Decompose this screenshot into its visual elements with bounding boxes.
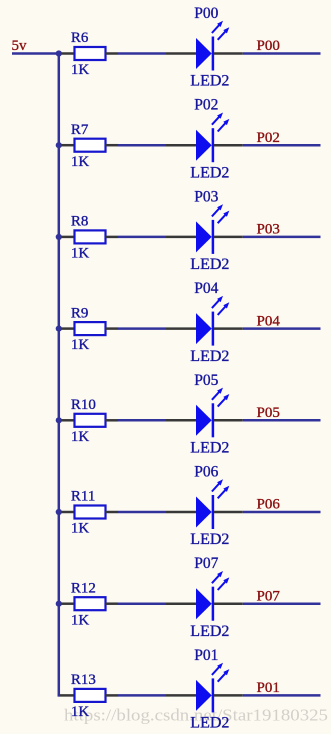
wire: LED to net label P00 [243, 52, 321, 55]
svg-text:LED2: LED2 [190, 348, 229, 365]
junction node row 6 [56, 509, 62, 515]
net label P02 [257, 130, 280, 146]
resistor R11 value 1K [71, 521, 90, 537]
LED pin label P03 [194, 188, 218, 205]
svg-text:LED2: LED2 [190, 440, 229, 457]
LED D3 (LED2) [166, 204, 243, 254]
corner node row 8 [58, 694, 61, 697]
svg-text:P04: P04 [194, 280, 218, 297]
svg-text:LED2: LED2 [190, 256, 229, 273]
svg-text:R12: R12 [71, 580, 96, 596]
resistor R6 value 1K [71, 62, 90, 78]
svg-text:P01: P01 [257, 680, 280, 696]
resistor R13 value 1K [71, 704, 90, 720]
LED D5 (LED2) [166, 388, 243, 438]
net label P07 [257, 588, 281, 604]
wire: LED to net label P06 [243, 511, 321, 514]
LED pin label P04 [194, 280, 218, 297]
resistor R9 [61, 322, 118, 335]
svg-text:5v: 5v [12, 38, 28, 54]
svg-text:R9: R9 [71, 305, 89, 321]
net label P06 [257, 497, 281, 513]
LED pin label P06 [194, 464, 218, 481]
LED D4 (LED2) [166, 296, 243, 346]
svg-text:1K: 1K [71, 429, 90, 445]
wire: 5v to bus junction [12, 52, 59, 55]
svg-text:1K: 1K [71, 62, 90, 78]
resistor R6 [61, 47, 118, 60]
resistor R8 designator [71, 214, 89, 230]
svg-text:P03: P03 [194, 188, 218, 205]
resistor R12 designator [71, 580, 96, 596]
resistor R13 [60, 689, 118, 702]
net label P01 [257, 680, 280, 696]
resistor R11 [61, 506, 118, 519]
resistor R6 designator [71, 30, 89, 46]
wire: LED to net label P07 [243, 602, 321, 605]
LED pin label P00 [194, 5, 218, 22]
wire: LED to net label P04 [243, 327, 321, 330]
resistor R10 [61, 414, 118, 427]
svg-text:P07: P07 [257, 588, 281, 604]
svg-text:P02: P02 [257, 130, 280, 146]
net label P00 [257, 38, 280, 54]
resistor R8 [61, 230, 118, 243]
svg-text:P05: P05 [194, 372, 218, 389]
svg-text:P02: P02 [194, 97, 218, 114]
LED value label LED2 [190, 440, 229, 457]
svg-text:P06: P06 [194, 464, 218, 481]
LED D6 (LED2) [166, 479, 243, 529]
svg-text:1K: 1K [71, 246, 90, 262]
svg-text:R10: R10 [71, 397, 96, 413]
junction node row 5 [56, 417, 62, 423]
wire: LED to net label P05 [243, 419, 321, 422]
resistor R9 designator [71, 305, 89, 321]
wire: R11 to LED row 6 [118, 511, 166, 514]
resistor R9 value 1K [71, 337, 90, 353]
junction node row 2 [56, 142, 62, 148]
svg-text:R8: R8 [71, 214, 89, 230]
LED value label LED2 [190, 73, 229, 90]
wire: R12 to LED row 7 [118, 602, 166, 605]
wire: R8 to LED row 3 [118, 236, 166, 239]
resistor R13 designator [71, 672, 96, 688]
LED value label LED2 [190, 348, 229, 365]
LED pin label P05 [194, 372, 218, 389]
LED D7 (LED2) [166, 571, 243, 621]
svg-text:1K: 1K [71, 704, 90, 720]
svg-text:LED2: LED2 [190, 715, 229, 732]
resistor R10 designator [71, 397, 96, 413]
LED value label LED2 [190, 531, 229, 548]
svg-text:R11: R11 [71, 489, 95, 505]
svg-text:P06: P06 [257, 497, 281, 513]
net label P04 [257, 313, 281, 329]
resistor R7 designator [71, 122, 89, 138]
svg-text:LED2: LED2 [190, 531, 229, 548]
svg-text:P07: P07 [194, 555, 218, 572]
LED pin label P07 [194, 555, 218, 572]
wire: R9 to LED row 4 [118, 327, 166, 330]
resistor R7 [61, 139, 118, 152]
resistor R10 value 1K [71, 429, 90, 445]
svg-text:1K: 1K [71, 154, 90, 170]
svg-text:P00: P00 [257, 38, 280, 54]
resistor R12 value 1K [71, 612, 90, 628]
LED value label LED2 [190, 715, 229, 732]
svg-text:P01: P01 [194, 647, 218, 664]
net label P05 [257, 405, 280, 421]
svg-text:1K: 1K [71, 521, 90, 537]
junction node row 7 [56, 601, 62, 607]
wire: vertical 5V bus [58, 54, 61, 696]
wire: R7 to LED row 2 [118, 144, 166, 147]
svg-text:LED2: LED2 [190, 164, 229, 181]
wire: LED to net label P03 [243, 236, 321, 239]
wire: LED to net label P02 [243, 144, 321, 147]
svg-text:R6: R6 [71, 30, 89, 46]
svg-text:P00: P00 [194, 5, 218, 22]
svg-text:1K: 1K [71, 612, 90, 628]
resistor R7 value 1K [71, 154, 90, 170]
svg-text:1K: 1K [71, 337, 90, 353]
svg-text:P03: P03 [257, 222, 280, 238]
LED D1 (LED2) [166, 21, 243, 71]
resistor R11 designator [71, 489, 95, 505]
svg-text:LED2: LED2 [190, 73, 229, 90]
junction node row 4 [56, 326, 62, 332]
watermark (decor) [64, 706, 328, 725]
svg-text:LED2: LED2 [190, 623, 229, 640]
LED value label LED2 [190, 164, 229, 181]
wire: R6 to LED row 1 [118, 52, 166, 55]
LED pin label P01 [194, 647, 218, 664]
resistor R12 [61, 597, 118, 610]
power net label 5v [12, 38, 28, 54]
junction node row 1 [56, 50, 62, 56]
wire: R10 to LED row 5 [118, 419, 166, 422]
wire: LED to net label P01 [243, 694, 321, 697]
LED value label LED2 [190, 623, 229, 640]
svg-text:P04: P04 [257, 313, 281, 329]
svg-text:R7: R7 [71, 122, 89, 138]
wire: R13 to LED row 8 [118, 694, 166, 697]
svg-text:R13: R13 [71, 672, 96, 688]
LED pin label P02 [194, 97, 218, 114]
LED D8 (LED2) [166, 663, 243, 713]
LED value label LED2 [190, 256, 229, 273]
svg-text:P05: P05 [257, 405, 280, 421]
resistor R8 value 1K [71, 246, 90, 262]
net label P03 [257, 222, 280, 238]
LED D2 (LED2) [166, 113, 243, 163]
junction node row 3 [56, 234, 62, 240]
